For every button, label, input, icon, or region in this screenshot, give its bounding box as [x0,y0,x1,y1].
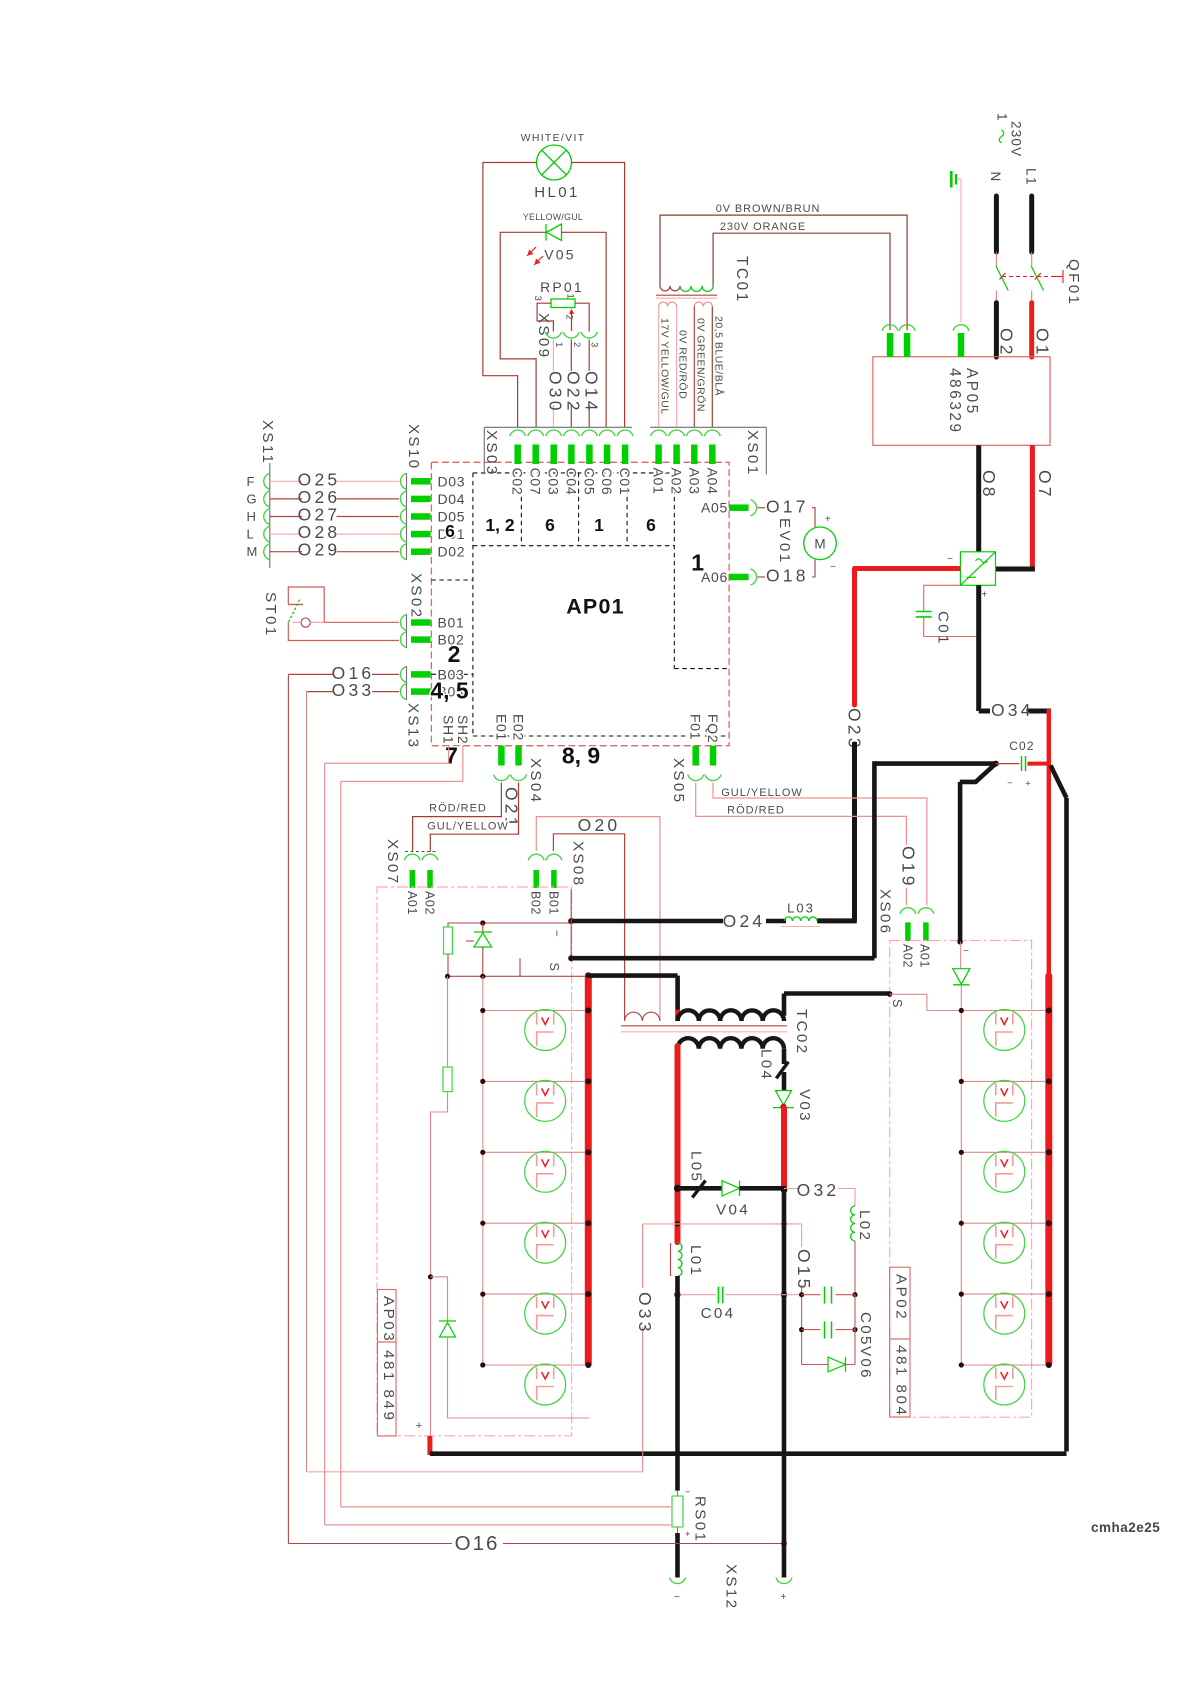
svg-text:N: N [988,172,1003,183]
breaker QF01 [996,252,1082,306]
box AP02 num 481 804 [890,1339,910,1417]
svg-text:L01: L01 [687,1245,704,1277]
diode AP03 V1 [439,1277,589,1418]
svg-text:TC02: TC02 [793,1009,810,1055]
label function 2 [448,641,461,667]
svg-text:1, 2: 1, 2 [485,515,514,535]
svg-text:AP01: AP01 [566,595,625,619]
wire RP01 pin1 [575,303,589,331]
wire plus leg lower (black) [782,1190,787,1578]
svg-text:AP02: AP02 [893,1274,910,1321]
svg-text:C02: C02 [510,468,526,496]
connector XS05 [670,714,721,804]
bus bottom (black) [430,1451,1067,1456]
svg-text:O29: O29 [298,540,341,560]
svg-text:+: + [416,1420,422,1432]
svg-text:AP03: AP03 [380,1296,397,1343]
label SH2 [455,715,471,744]
diode AP02 input [953,942,970,1011]
labels XS01 pins [651,468,721,495]
wire O24 minus bus [550,889,786,959]
wire AP02 left bus [960,1011,962,1366]
connector XS02 [400,573,464,648]
resistor AP03 R2 [443,976,452,1091]
svg-text:230V ORANGE: 230V ORANGE [720,221,806,233]
wire O16 top [288,663,399,683]
label cmha2e25 [1091,1520,1160,1535]
svg-text:A02: A02 [423,891,437,915]
svg-text:3: 3 [589,342,600,347]
svg-text:XS08: XS08 [570,841,587,887]
svg-text:6: 6 [445,521,455,541]
wire AP02 S entry [890,994,962,1010]
svg-text:C02: C02 [1009,739,1035,753]
svg-text:L02: L02 [856,1210,873,1242]
svg-text:1: 1 [995,113,1010,122]
labels XS10 pins [438,473,466,559]
svg-text:XS02: XS02 [408,573,425,619]
svg-text:V06: V06 [857,1346,874,1380]
svg-text:−: − [550,930,562,937]
svg-text:0V BROWN/BRUN: 0V BROWN/BRUN [716,203,821,215]
svg-text:cmha2e25: cmha2e25 [1091,1520,1160,1535]
connector XS09 [535,313,600,359]
svg-text:S: S [547,963,561,971]
svg-text:0V GREEN/GRÖN: 0V GREEN/GRÖN [695,318,707,412]
svg-text:481 804: 481 804 [893,1345,910,1417]
svg-text:−: − [674,1592,680,1603]
connector XS12 [670,1564,793,1610]
svg-text:RP01: RP01 [540,279,584,295]
junction V04 node right [781,1186,788,1193]
svg-text:O2: O2 [997,328,1017,358]
svg-text:XS10: XS10 [405,424,422,470]
wire O2 [996,303,1016,358]
svg-text:A01: A01 [405,891,419,915]
svg-text:−: − [963,946,969,957]
svg-text:C05: C05 [581,468,597,496]
label AP01 [566,595,625,619]
wire E01 ROD/RED [413,783,522,852]
svg-text:+: + [685,1529,691,1540]
wire TC02 primary feed [586,976,678,1021]
module AP03 border [377,887,572,1436]
svg-text:1: 1 [564,294,575,299]
ground PE [951,171,961,323]
svg-text:V03: V03 [796,1089,813,1123]
line L1 input [1024,168,1039,252]
svg-text:WHITE/VIT: WHITE/VIT [521,132,586,144]
svg-text:O1: O1 [1033,328,1053,358]
svg-text:XS07: XS07 [384,839,401,885]
svg-text:RÖD/RED: RÖD/RED [727,805,785,817]
capacitor C04 [674,1287,801,1322]
wire HL01 left to C02 [483,163,537,428]
svg-text:O15: O15 [794,1249,814,1292]
svg-text:C05: C05 [857,1312,874,1347]
thermal switch ST01 [262,587,399,641]
svg-text:C04: C04 [701,1305,736,1322]
wire O14 (XS09-3 to C05) [582,340,602,428]
svg-text:XS09: XS09 [535,313,552,359]
inductor L04 [758,1049,789,1091]
svg-text:L: L [247,527,254,542]
label function 1,2 [485,515,514,535]
svg-text:8, 9: 8, 9 [562,742,600,768]
wire V03 to V04 node (red) [781,1109,787,1191]
capacitor C05a [799,1287,858,1304]
wire HL01 right to C01 [572,163,625,428]
wire AP03 S sense [519,958,521,976]
connector XS08 [528,841,586,915]
label function 6 left [445,521,455,541]
svg-text:481 849: 481 849 [380,1350,397,1422]
svg-text:C04: C04 [563,468,579,496]
connector XS10 [400,424,430,560]
svg-text:486329: 486329 [946,368,963,435]
label function 1 right [691,550,704,576]
wire O33 top [307,680,400,700]
svg-text:L04: L04 [758,1049,775,1081]
svg-text:O7: O7 [1035,470,1055,500]
lamp HL01 [521,132,586,201]
svg-text:B01: B01 [546,891,560,915]
svg-text:6: 6 [646,515,656,535]
wire minus to AP02 (black) [957,761,999,945]
label function 1 mid [594,515,604,535]
svg-text:XS06: XS06 [877,889,894,935]
svg-text:O33: O33 [635,1292,655,1335]
wire V05 right to C06 [562,232,607,427]
motor EV01 [758,497,837,586]
svg-text:A05: A05 [701,500,728,516]
label SH1 [441,715,457,744]
wire TC02 to AP02 S (black) [784,991,893,1016]
svg-text:L05: L05 [687,1151,704,1183]
line N input [988,172,1003,253]
wire S bus [547,761,996,971]
box AP02 label [890,1267,910,1339]
diode V03 [773,1089,813,1123]
bus AP03 drain (red) [585,976,592,1364]
wire O15 [675,1221,814,1364]
wire O22 (XS09-2 to C04) [564,340,584,428]
wires AP02 mosfet rows [959,1008,1052,1369]
wire V05 left to C07 [500,232,546,427]
svg-text:O33: O33 [332,680,375,700]
svg-text:A01: A01 [651,468,667,495]
svg-text:A03: A03 [686,468,702,495]
svg-text:F: F [247,474,255,489]
svg-text:EV01: EV01 [776,518,793,564]
svg-text:C07: C07 [528,468,544,496]
box AP03 label [378,1290,398,1344]
zener AP03 [466,932,492,976]
wire O20 (B01 to TC02 tap) [553,815,624,1021]
label function 4,5 [430,677,469,703]
svg-text:XS04: XS04 [527,758,544,804]
potentiometer RP01 [532,279,584,331]
connector XS07 [384,839,438,915]
transformer TC02 [621,1009,810,1055]
svg-text:C01: C01 [935,611,952,646]
label function 6 mid [545,515,555,535]
wire TC01 sec 0V GREEN/GRON [694,307,706,428]
svg-text:A01: A01 [917,944,931,968]
shunt RS01 [672,1487,709,1578]
pin A05 [701,500,757,516]
wire AP03 plus stub [416,1420,430,1455]
label AP02 minus [963,946,969,957]
svg-text:O32: O32 [797,1180,840,1200]
svg-text:D03: D03 [438,473,466,489]
svg-text:1: 1 [594,515,604,535]
LED V05 [523,212,583,265]
svg-text:SH1: SH1 [441,715,457,744]
svg-text:O17: O17 [766,497,809,517]
svg-text:D02: D02 [438,544,466,560]
wire E02 GUL/YELLOW [427,783,518,852]
wire O8 [979,445,999,552]
svg-text:XS12: XS12 [723,1564,740,1610]
svg-text:7: 7 [445,742,458,768]
wire FQ2 GUL/YELLOW [713,783,927,906]
svg-text:TC01: TC01 [733,256,750,304]
labels XS03 pins [510,468,633,496]
wire O1 [1032,303,1053,358]
transistors AP03 Q1-Q6 [525,1010,566,1406]
wire AP03 R1 bottom [445,954,586,979]
svg-text:H: H [247,509,256,524]
svg-text:O18: O18 [766,566,809,586]
svg-text:SH2: SH2 [455,715,471,744]
wires O25-O29 [270,469,399,559]
wire minus leg lower (black) [675,1276,680,1491]
svg-text:O19: O19 [899,846,919,889]
svg-text:GUL/YELLOW: GUL/YELLOW [721,787,803,799]
svg-text:ST01: ST01 [262,592,279,638]
transformer TC01 [656,256,750,307]
svg-text:D04: D04 [438,491,466,507]
svg-text:V05: V05 [544,247,576,263]
inductor L01 [671,1243,705,1277]
svg-text:XS03: XS03 [483,430,500,476]
svg-text:FQ2: FQ2 [705,714,721,743]
connector XS13 [400,666,464,749]
block AP01 border [431,462,729,745]
svg-text:E02: E02 [511,714,527,741]
svg-text:A02: A02 [669,468,685,495]
wire O30 (XS09-1 to C03) [546,340,566,428]
connector XS11 [247,420,277,568]
wire SH2 sense [341,746,671,1507]
svg-text:O8: O8 [979,470,999,500]
box AP03 num 481 849 [378,1342,398,1436]
wire TC01 sec 0V RED/ROD [677,307,689,428]
diode V04 [716,1181,786,1219]
svg-text:+: + [981,590,987,601]
wire O7 [996,445,1056,569]
svg-text:RS01: RS01 [692,1496,709,1543]
svg-text:2: 2 [448,641,461,667]
connector XS06 [877,889,934,968]
label function 8,9 [562,742,600,768]
wire O34 [979,585,1051,976]
wires AP03 mosfet rows [480,1008,591,1369]
svg-text:6: 6 [545,515,555,535]
wire TC01 sec 20,5 BLUE/BLA [712,307,725,428]
svg-text:4, 5: 4, 5 [430,677,469,703]
bus AP02 drain (red) [1045,976,1052,1363]
svg-text:E01: E01 [493,714,509,741]
svg-text:XS05: XS05 [670,758,687,804]
svg-text:−: − [1007,778,1013,789]
svg-text:RÖD/RED: RÖD/RED [429,803,487,815]
svg-text:0V RED/RÖD: 0V RED/RÖD [677,330,689,399]
rectifier V01 [947,552,995,601]
label function 7 [445,742,458,768]
svg-text:AP05: AP05 [963,368,980,416]
wire 0V BROWN/BRUN [660,203,907,330]
svg-text:−: − [830,562,836,573]
wire O33 [307,692,678,1472]
svg-text:HL01: HL01 [534,184,579,201]
svg-text:GUL/YELLOW: GUL/YELLOW [427,821,509,833]
svg-text:O14: O14 [582,371,602,414]
wire 230V ORANGE [713,221,890,330]
svg-text:C03: C03 [546,468,562,496]
svg-text:S: S [890,999,904,1007]
svg-text:C06: C06 [599,468,615,496]
svg-text:O20: O20 [578,815,621,835]
inductor L02 [851,1206,873,1295]
wire AP03 R2 to plus rail [428,1092,448,1437]
capacitor C02 [996,739,1049,790]
capacitor C05b [799,1312,874,1347]
wire O16 [288,674,786,1555]
box AP05 486329 [873,325,1050,446]
svg-text:QF01: QF01 [1065,259,1082,306]
svg-text:O24: O24 [723,911,766,931]
resistor AP03 R1 [444,927,453,954]
svg-text:230V: 230V [1009,121,1024,157]
svg-text:1: 1 [691,550,704,576]
wire B02 to TC02 tap [536,817,660,1021]
connector XS01 [650,427,766,476]
svg-text:B02: B02 [529,891,543,915]
wire AP03 gate bus [482,976,484,1365]
svg-text:F01: F01 [688,714,704,740]
svg-text:XS11: XS11 [259,420,276,465]
wire TC02 sec left leg (red) [675,1046,681,1242]
svg-text:M: M [814,537,825,552]
block AP01 internal dashed partitions [431,473,729,736]
connector XS04 [493,714,544,804]
svg-text:+: + [1025,779,1031,790]
label 230V 1~ [995,113,1024,157]
svg-text:2: 2 [571,342,582,347]
svg-text:XS01: XS01 [744,430,761,476]
wire TC01 sec 17V YELLOW/GUL [659,307,671,428]
inductor L03 [781,901,820,927]
diode V06 [802,1295,874,1380]
svg-text:A04: A04 [704,468,720,495]
svg-text:+: + [781,1592,787,1603]
svg-text:L1: L1 [1024,168,1039,186]
wire SH1 sense [325,746,671,1525]
capacitor C01 [916,585,979,645]
transistors AP02 Q1-Q6 [984,1010,1025,1406]
wire AP03 gate header [448,920,571,932]
wire O32 [784,1180,855,1206]
inductor L05 [678,1151,723,1198]
svg-text:L03: L03 [787,901,815,916]
svg-text:O30: O30 [546,371,566,414]
svg-text:O34: O34 [991,700,1034,720]
svg-text:YELLOW/GUL: YELLOW/GUL [523,212,583,222]
svg-text:17V YELLOW/GUL: 17V YELLOW/GUL [659,318,671,415]
svg-text:O22: O22 [564,371,584,414]
svg-text:1: 1 [553,342,564,347]
wire F01 ROD/RED O19 [696,783,919,906]
svg-text:V04: V04 [716,1202,750,1219]
svg-text:A06: A06 [701,569,728,585]
svg-text:B01: B01 [438,615,465,631]
wire TC02 sec right leg upper [782,1049,787,1064]
svg-text:2: 2 [564,315,575,320]
svg-text:M: M [247,544,258,559]
svg-text:−: − [947,554,953,565]
svg-text:O16: O16 [455,1532,500,1555]
connector XS03 [483,427,633,476]
svg-text:+: + [825,514,831,525]
svg-text:20,5 BLUE/BLÅ: 20,5 BLUE/BLÅ [713,316,726,396]
svg-text:G: G [247,491,257,506]
svg-text:3: 3 [532,296,543,301]
wire O23 [817,569,960,921]
module AP02 border [890,941,1032,1418]
junction V04 node left [674,1185,681,1192]
pin A06 [701,569,757,585]
svg-text:A02: A02 [900,944,914,968]
svg-text:C01: C01 [617,468,633,496]
wire RP01 pin3 [537,303,553,331]
wire right bus (black) [1051,765,1067,1451]
svg-text:XS13: XS13 [405,703,422,749]
svg-text:−: − [685,1487,691,1498]
label function 6 right [646,515,656,535]
